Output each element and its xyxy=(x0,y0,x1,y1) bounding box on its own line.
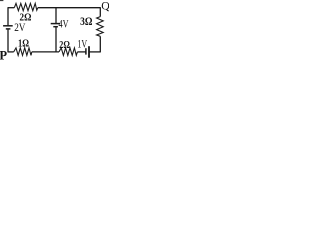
battery B3 1V short plate xyxy=(85,48,87,54)
svg-text:1V: 1V xyxy=(77,39,87,51)
wire middle branch upper xyxy=(55,7,57,23)
svg-text:3Ω: 3Ω xyxy=(80,14,93,28)
battery B1 2V long plate xyxy=(3,25,13,27)
wire bottom middle xyxy=(32,51,59,53)
wire right lower xyxy=(99,36,101,52)
wire top-right xyxy=(38,7,101,9)
svg-text:4V: 4V xyxy=(59,17,69,31)
svg-text:P: P xyxy=(0,48,7,62)
svg-text:2V: 2V xyxy=(14,21,26,34)
svg-text:1Ω: 1Ω xyxy=(18,38,29,50)
battery B3 1V long plate xyxy=(88,46,90,58)
battery B2 4V short plate xyxy=(53,26,58,28)
wire middle branch lower xyxy=(55,27,57,53)
battery B2 4V long plate xyxy=(51,23,61,25)
resistor R-top 2ohm xyxy=(14,3,38,10)
wire bottom-left stub xyxy=(8,51,14,53)
wire bottom right stub xyxy=(77,51,85,53)
svg-text:Q: Q xyxy=(101,0,109,12)
wire top-left stub xyxy=(8,7,14,9)
resistor R-bottom-left 1ohm xyxy=(14,48,32,56)
battery B1 2V short plate xyxy=(6,28,11,30)
wire right upper xyxy=(99,7,101,16)
wire bottom-right corner xyxy=(89,51,100,53)
resistor R-bottom-right 2ohm xyxy=(59,48,77,56)
wire left lower xyxy=(7,29,9,53)
wire left upper xyxy=(7,7,9,26)
stray mark top-left xyxy=(0,0,3,1)
svg-text:2Ω: 2Ω xyxy=(59,39,70,51)
resistor R-right 3ohm xyxy=(97,17,104,37)
